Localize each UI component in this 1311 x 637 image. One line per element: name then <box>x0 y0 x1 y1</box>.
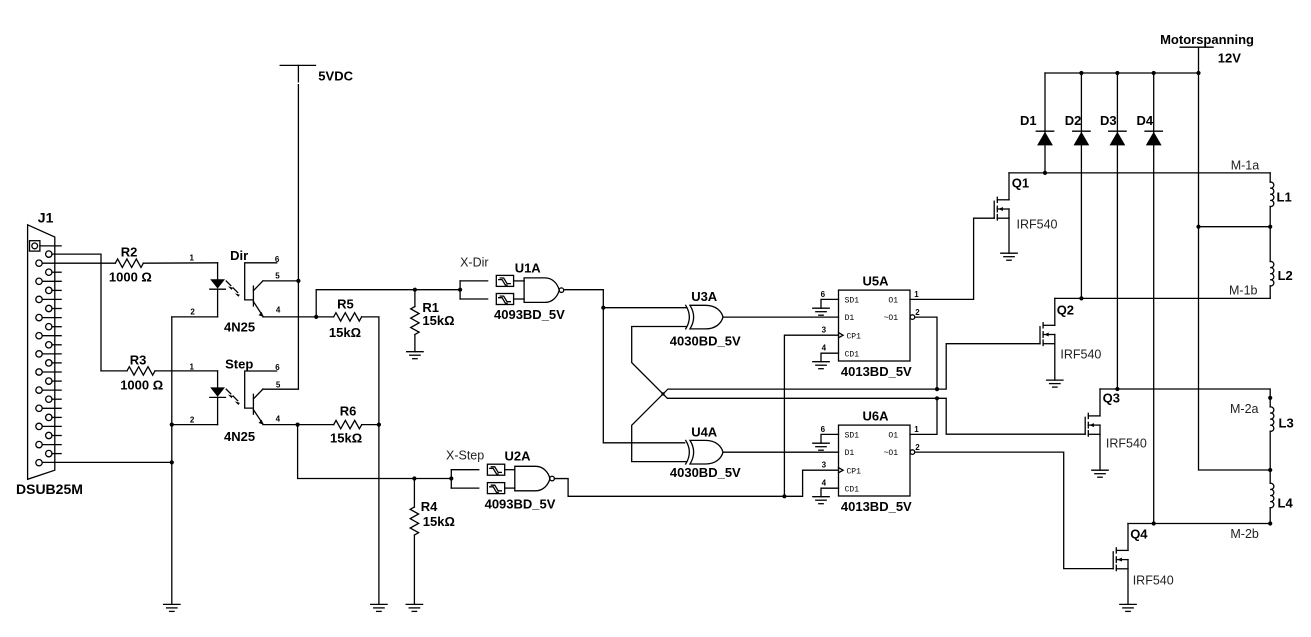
Dir LED cathode bar <box>210 288 226 290</box>
svg-text:Dir: Dir <box>230 248 248 263</box>
connector J1 DSUB25M body <box>28 225 55 479</box>
svg-text:15kΩ: 15kΩ <box>422 313 454 328</box>
svg-text:SD1: SD1 <box>845 431 860 440</box>
junction D4 / M-2b <box>1152 521 1156 525</box>
diode D4 symbol <box>1145 130 1162 132</box>
resistor R3 <box>101 370 127 372</box>
wire Dir pin4 <box>263 316 316 318</box>
svg-text:DSUB25M: DSUB25M <box>16 481 83 497</box>
wire U2A output to clock rail <box>554 470 838 496</box>
svg-text:5VDC: 5VDC <box>318 68 353 83</box>
svg-text:U2A: U2A <box>505 449 532 464</box>
svg-text:Q2: Q2 <box>1057 303 1074 318</box>
wire 5VDC rail vertical <box>297 65 299 81</box>
Step collector lead <box>253 389 263 399</box>
inductor L1 coil <box>1270 182 1274 207</box>
svg-text:Q1: Q1 <box>1012 175 1029 190</box>
wire R2 to opto Dir pin1 <box>143 262 217 264</box>
svg-text:L2: L2 <box>1278 268 1293 283</box>
svg-text:15kΩ: 15kΩ <box>330 430 362 445</box>
svg-text:M-2b: M-2b <box>1230 527 1259 541</box>
svg-text:CP1: CP1 <box>847 333 862 342</box>
Step emitter lead with arrow <box>253 410 263 424</box>
resistor R2 <box>115 259 143 267</box>
svg-text:X-Dir: X-Dir <box>460 256 488 270</box>
U6A ~O1 bubble <box>910 450 915 455</box>
inductor L3 <box>1269 398 1271 407</box>
svg-text:~O1: ~O1 <box>884 449 899 458</box>
inductor L2 coil <box>1270 261 1274 286</box>
Step LED cathode bar <box>210 396 226 398</box>
ground (input common) <box>164 604 180 611</box>
junction U2A inputs <box>449 476 453 480</box>
power Motorspanning 12V symbol <box>1180 46 1213 48</box>
U6A SD1 pin 6 with ground <box>821 434 839 443</box>
svg-text:1: 1 <box>914 290 919 299</box>
Step LED triangle <box>210 387 225 396</box>
wire Step pin4 <box>263 424 298 426</box>
svg-text:L4: L4 <box>1278 496 1294 511</box>
wire U5A ~O1 down to H1 <box>915 317 937 389</box>
svg-text:CP1: CP1 <box>847 468 862 477</box>
junction bus D4 <box>1152 71 1156 75</box>
Step LED cathode lead to pin2 <box>217 397 219 424</box>
wire M-1b rail <box>1055 297 1270 299</box>
svg-text:U4A: U4A <box>691 424 718 439</box>
wire U3A input B to H2 (U6A O1 net) <box>632 327 1085 435</box>
junction bus D3 <box>1115 71 1119 75</box>
power 5VDC symbol <box>280 64 315 66</box>
wire diode top bus <box>1045 72 1199 74</box>
svg-text:D3: D3 <box>1100 113 1117 128</box>
svg-text:D4: D4 <box>1137 113 1154 128</box>
wire X-Dir link (pin4 up and over) <box>316 290 460 317</box>
svg-text:4: 4 <box>822 478 827 487</box>
wire J1 bottom pin to ground net <box>42 461 172 463</box>
svg-text:X-Step: X-Step <box>446 448 484 462</box>
optocoupler Dir 4N25 LED anode lead <box>217 263 219 279</box>
diode D1 line <box>1044 73 1046 173</box>
diode D2 line <box>1080 73 1082 298</box>
junction 12V centre tap M1 <box>1196 225 1200 229</box>
Step base to pin6 <box>245 371 277 408</box>
gate U1A input branches <box>459 281 461 299</box>
junction R1 <box>413 288 417 292</box>
wire U4A output to U6A D1 <box>723 451 839 453</box>
resistor R1 <box>414 290 416 307</box>
svg-text:M-1b: M-1b <box>1229 283 1258 297</box>
diode D4 line <box>1153 73 1155 524</box>
U2A in B schmitt trigger box <box>487 483 504 494</box>
junction U5A clock branch <box>782 494 786 498</box>
inductor L3 coil <box>1270 407 1274 432</box>
svg-text:4093BD_5V: 4093BD_5V <box>485 497 556 512</box>
svg-text:4: 4 <box>276 305 281 314</box>
svg-text:IRF540: IRF540 <box>1017 218 1058 232</box>
transistor Q3 IRF540 <box>1099 389 1101 416</box>
optocoupler Step 4N25 LED anode lead <box>217 371 219 387</box>
junction U3A input branch <box>601 306 605 310</box>
svg-text:2: 2 <box>190 415 195 424</box>
svg-text:12V: 12V <box>1218 51 1241 66</box>
junction D3 / M-2a <box>1115 387 1119 391</box>
wire to U3A input A <box>603 307 686 309</box>
junction Step pin4 / X-Step link <box>296 423 300 427</box>
wire Dir pin5 <box>263 280 299 282</box>
junction R6 right / ground drop <box>377 423 381 427</box>
svg-text:1000 Ω: 1000 Ω <box>109 270 152 285</box>
gate U2A input branches <box>450 470 452 488</box>
Dir light arrows <box>226 281 231 286</box>
svg-text:SD1: SD1 <box>845 296 860 305</box>
junction D2 / M-1b <box>1079 296 1083 300</box>
XOR gate U4A body <box>686 440 690 464</box>
U5A CD1 pin 4 with ground <box>821 353 839 362</box>
wire M-2a rail <box>1100 389 1270 398</box>
junction R4 <box>412 476 416 480</box>
svg-text:1: 1 <box>190 253 195 262</box>
wire J1 pin row1 to R3 feed <box>52 254 101 371</box>
Q3 source to ground <box>1099 425 1101 470</box>
junction U1A inputs <box>458 288 462 292</box>
svg-text:2: 2 <box>190 308 195 317</box>
U1A in B schmitt trigger box <box>496 294 513 305</box>
junction D1 / M-1a <box>1043 171 1047 175</box>
svg-text:M-2a: M-2a <box>1230 402 1259 416</box>
wire Step pin5 <box>263 388 299 390</box>
svg-text:CD1: CD1 <box>845 486 860 495</box>
ground (R1) <box>407 352 423 359</box>
svg-text:IRF540: IRF540 <box>1106 437 1147 451</box>
svg-text:4030BD_5V: 4030BD_5V <box>670 334 741 349</box>
svg-text:6: 6 <box>275 363 280 372</box>
U5A SD1 pin 6 with ground <box>821 299 839 308</box>
svg-text:3: 3 <box>822 325 827 334</box>
svg-text:4093BD_5V: 4093BD_5V <box>494 307 565 322</box>
svg-text:2: 2 <box>915 443 920 452</box>
svg-text:D1: D1 <box>845 314 855 323</box>
svg-text:M-1a: M-1a <box>1231 158 1260 172</box>
Step light arrows <box>226 389 231 394</box>
Dir base to pin6 <box>245 263 277 300</box>
U5A clock triangle <box>839 333 844 338</box>
NAND gate U2A body <box>515 466 550 491</box>
svg-text:4: 4 <box>822 343 827 352</box>
diode D2 symbol <box>1073 130 1090 132</box>
Dir emitter lead with arrow <box>253 302 263 317</box>
resistor R6 <box>334 420 362 428</box>
diode D1 symbol <box>1036 130 1053 132</box>
U6A clock triangle <box>839 468 844 473</box>
svg-text:4N25: 4N25 <box>224 429 255 444</box>
U1A in A schmitt trigger box <box>496 275 513 286</box>
junction Dir pin4 / X-Dir link <box>314 315 318 319</box>
junction bus D2 <box>1079 71 1083 75</box>
J1 pin circles and stubs <box>46 251 52 257</box>
wire U4A input B to H1 (U5A ~O1 net) <box>632 344 1040 462</box>
junction Dir pin5 / 5V <box>296 279 300 283</box>
svg-text:4N25: 4N25 <box>224 319 255 334</box>
transistor Q2 IRF540 <box>1054 298 1056 325</box>
svg-text:~O1: ~O1 <box>884 314 899 323</box>
junction L3/L4 centre tap <box>1268 468 1272 472</box>
junction opto Step pin2 <box>170 423 174 427</box>
flip-flop U5A 4013 box <box>839 290 911 361</box>
svg-text:D1: D1 <box>1020 113 1037 128</box>
resistor R5 <box>334 313 362 321</box>
svg-text:6: 6 <box>275 255 280 264</box>
U2A in A schmitt trigger box <box>487 464 504 475</box>
junction L1/L2 centre tap <box>1268 225 1272 229</box>
Dir LED triangle <box>210 279 225 288</box>
svg-text:4: 4 <box>276 414 281 423</box>
wire clock branch to U5A CP1 <box>784 335 838 496</box>
svg-text:1: 1 <box>914 425 919 434</box>
svg-text:R5: R5 <box>337 297 354 312</box>
svg-text:R2: R2 <box>121 244 138 259</box>
svg-text:1: 1 <box>190 362 195 371</box>
svg-text:1000 Ω: 1000 Ω <box>120 378 163 393</box>
svg-text:O1: O1 <box>888 296 898 305</box>
svg-text:U6A: U6A <box>863 408 890 423</box>
svg-text:U3A: U3A <box>691 289 718 304</box>
svg-text:5: 5 <box>275 271 280 280</box>
svg-text:5: 5 <box>276 381 281 390</box>
svg-text:Step: Step <box>225 356 253 371</box>
Dir LED cathode lead to pin2 <box>217 289 219 317</box>
junction U6A O1 / H2 <box>935 396 939 400</box>
svg-text:R4: R4 <box>421 499 438 514</box>
wire M-1a rail <box>1009 172 1270 174</box>
Dir phototransistor base bar <box>252 286 254 306</box>
crossing artifact dot <box>661 392 664 395</box>
svg-text:IRF540: IRF540 <box>1060 348 1101 362</box>
svg-text:4013BD_5V: 4013BD_5V <box>841 499 912 514</box>
junction U5A ~O1 / H1 <box>935 387 939 391</box>
U1A output bubble <box>559 288 564 293</box>
svg-text:Q3: Q3 <box>1103 391 1120 406</box>
XOR gate U3A body <box>686 305 690 329</box>
wire R3 to opto Step pin1 <box>155 370 218 372</box>
svg-text:L3: L3 <box>1279 416 1294 431</box>
diode D3 symbol <box>1109 130 1126 132</box>
transistor Q4 IRF540 <box>1127 524 1129 551</box>
svg-text:U1A: U1A <box>515 260 542 275</box>
svg-text:4030BD_5V: 4030BD_5V <box>670 465 741 480</box>
junction J1 ground wire <box>170 460 174 464</box>
wire 12V rail <box>1199 47 1271 470</box>
J1 pin 1 square pad <box>30 241 40 251</box>
svg-text:6: 6 <box>821 425 826 434</box>
junction M-2a / L3 <box>1268 396 1272 400</box>
svg-text:15kΩ: 15kΩ <box>329 325 361 340</box>
svg-text:U5A: U5A <box>863 273 890 288</box>
junction bus 12V <box>1196 71 1200 75</box>
diode D3 line <box>1116 73 1118 389</box>
svg-text:L1: L1 <box>1277 190 1292 205</box>
Dir collector lead <box>253 281 263 291</box>
resistor R4 <box>413 479 415 508</box>
junction M-2b / L4 <box>1268 521 1272 525</box>
Q2 source to ground <box>1054 335 1056 381</box>
ground (R5/R6) <box>371 604 387 611</box>
wire X-Step link <box>298 425 452 479</box>
Q4 source to ground <box>1127 560 1129 605</box>
flip-flop U6A 4013 box <box>839 425 911 496</box>
svg-text:O1: O1 <box>888 431 898 440</box>
wire Step pin2 <box>172 424 218 426</box>
svg-text:J1: J1 <box>38 209 54 225</box>
wire R5 to ground drop <box>362 317 379 605</box>
inductor L2 <box>1269 227 1271 262</box>
wire U3A output to U5A D1 <box>723 316 839 318</box>
inductor L4 <box>1269 470 1271 483</box>
U5A ~O1 bubble <box>910 315 915 320</box>
inductor L4 coil <box>1270 483 1274 508</box>
ground (R4) <box>406 604 422 611</box>
Q1 source to ground <box>1008 209 1010 253</box>
inductor L1 <box>1269 173 1271 182</box>
wire U5A O1 to Q1 gate <box>910 218 994 299</box>
svg-text:2: 2 <box>915 308 920 317</box>
svg-text:4013BD_5V: 4013BD_5V <box>841 364 912 379</box>
Step phototransistor base bar <box>252 394 254 414</box>
NAND gate U1A body <box>524 278 559 303</box>
svg-text:D1: D1 <box>845 449 855 458</box>
svg-text:CD1: CD1 <box>845 351 860 360</box>
svg-text:3: 3 <box>822 460 827 469</box>
svg-text:Motorspanning: Motorspanning <box>1160 32 1254 47</box>
svg-text:R6: R6 <box>340 403 357 418</box>
wire 12V to L1/L2 centre tap <box>1199 226 1271 228</box>
svg-text:15kΩ: 15kΩ <box>423 514 455 529</box>
wire M-2b rail <box>1128 523 1270 525</box>
svg-text:R3: R3 <box>130 352 147 367</box>
wire U1A output to XOR column <box>563 289 565 291</box>
svg-text:IRF540: IRF540 <box>1133 573 1174 587</box>
U6A CD1 pin 4 with ground <box>821 488 839 497</box>
wire Dir pin2 <box>172 316 218 318</box>
svg-text:6: 6 <box>821 290 826 299</box>
svg-text:Q4: Q4 <box>1130 527 1148 542</box>
U2A output bubble <box>550 476 555 481</box>
svg-text:D2: D2 <box>1065 113 1082 128</box>
J1 pin 1 stub <box>40 245 61 247</box>
wire U6A O1 up to H2 <box>910 398 937 434</box>
wire ground net vertical (opto pin2 / J1) <box>171 317 173 604</box>
transistor Q1 IRF540 <box>1008 173 1010 200</box>
wire U6A ~O1 to Q4 gate <box>915 452 1113 568</box>
wire J1 row2 to R2 <box>42 262 115 264</box>
